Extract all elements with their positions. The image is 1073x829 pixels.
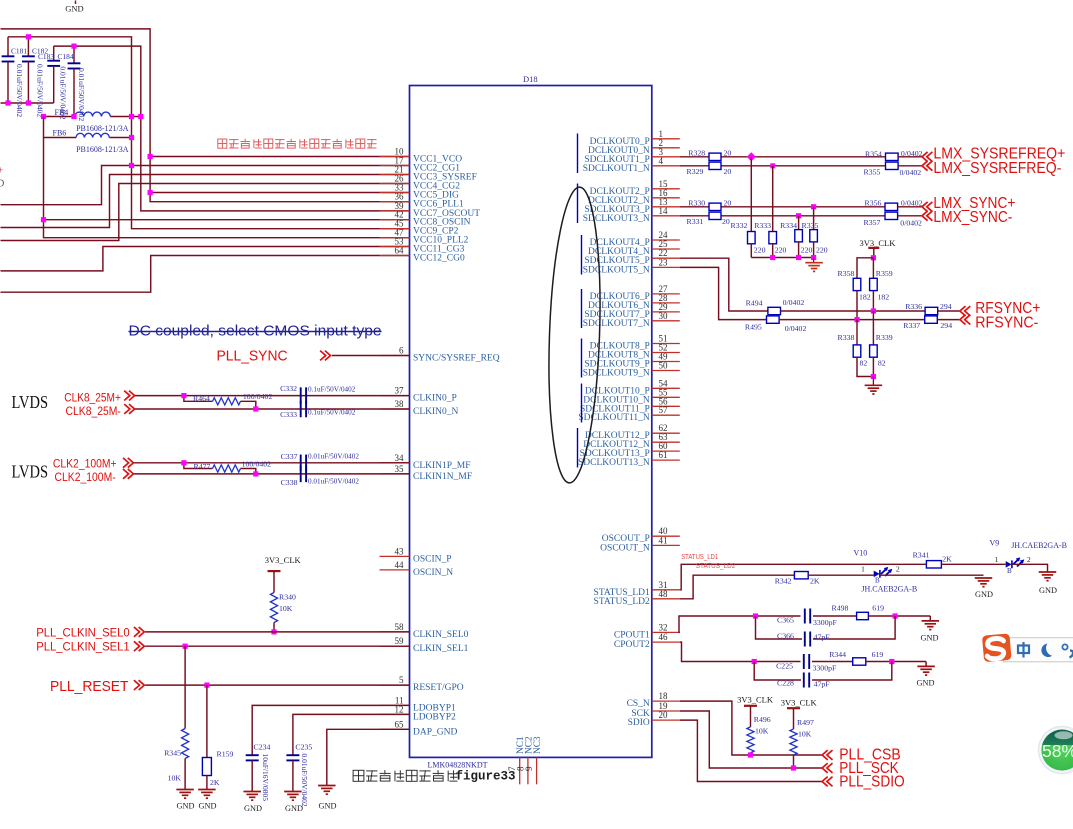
wire PLL_CLKIN_SEL0 to pin58 bbox=[145, 631, 409, 633]
port PLL_SDIO chevron bbox=[822, 777, 828, 787]
resistor R338 82 bbox=[838, 320, 874, 377]
junction dot FB6 row bbox=[129, 135, 134, 140]
svg-text:STATUS_LD2: STATUS_LD2 bbox=[696, 561, 736, 570]
pin 59 CLKIN_SEL1 (left) bbox=[380, 636, 469, 654]
port LMX_SYNC+ chevron bbox=[922, 202, 928, 212]
junction dots 220 rail bbox=[770, 255, 775, 260]
pin 11 LDOBYP1 (left) bbox=[380, 695, 457, 713]
wire STATUS_LD2 net bbox=[680, 575, 795, 599]
resistor R344 619 bbox=[829, 650, 883, 665]
power 3V3_CLK for R496 bbox=[737, 695, 774, 727]
pin 42 VCC8_OSCIN (left) bbox=[380, 210, 471, 228]
junction dot CPOUT2 node A bbox=[752, 659, 757, 664]
pin 15 DCLKOUT2_P (right) bbox=[590, 179, 680, 197]
svg-text:R359: R359 bbox=[876, 269, 893, 278]
pin 3 SDCLKOUT1_P (right) bbox=[584, 147, 679, 165]
port CLK8_25M+ chevron bbox=[124, 391, 130, 401]
resistor R494 0/0402 bbox=[746, 298, 805, 315]
resistor R358 182 bbox=[838, 258, 874, 320]
svg-text:50: 50 bbox=[659, 361, 669, 371]
port PLL_CLKIN_SEL0 chevron bbox=[134, 627, 140, 637]
power-ground symbol GND (top, partially cut) bbox=[65, 1, 83, 14]
pin 23 SDCLKOUT5_N (right) bbox=[583, 257, 680, 275]
resistor R354 0/0402 bbox=[865, 149, 923, 160]
junction dot v43/pin42 bbox=[41, 217, 46, 222]
svg-text:SDCLKOUT1_N: SDCLKOUT1_N bbox=[583, 164, 650, 174]
pin 4 SDCLKOUT1_N (right) bbox=[583, 156, 680, 174]
wire C365 to R498 bbox=[813, 615, 857, 617]
green percentage ball 58% bbox=[1038, 726, 1073, 774]
ground C234 bbox=[243, 792, 262, 814]
svg-text:C333: C333 bbox=[280, 410, 297, 419]
LED V10 JH.CAEB2GA-B bbox=[854, 549, 918, 594]
svg-text:OSCIN_P: OSCIN_P bbox=[413, 554, 452, 564]
svg-text:LVDS: LVDS bbox=[12, 392, 49, 412]
wire CLK8_25M- row bbox=[135, 408, 410, 410]
junction dot CPOUT2 node B bbox=[889, 659, 894, 664]
svg-text:4: 4 bbox=[659, 156, 664, 166]
svg-text:OSCIN_N: OSCIN_N bbox=[413, 568, 453, 578]
svg-text:619: 619 bbox=[872, 650, 884, 659]
port CLK8_25M- chevron bbox=[124, 404, 130, 414]
junction dot 3V3 split bbox=[871, 255, 876, 260]
junction dot R477 bottom bbox=[253, 471, 258, 476]
svg-text:0.01uF/50V/0402: 0.01uF/50V/0402 bbox=[308, 477, 359, 485]
svg-text:RESET/GPO: RESET/GPO bbox=[413, 683, 464, 693]
svg-text:47pF: 47pF bbox=[814, 679, 831, 688]
port PLL_SYNC chevron bbox=[320, 351, 326, 361]
svg-text:48: 48 bbox=[659, 589, 669, 599]
pin 18 CS_N (right) bbox=[627, 691, 680, 709]
svg-text:C225: C225 bbox=[776, 662, 793, 671]
resistor R159 2K bbox=[202, 685, 233, 789]
wire pin26 from left edge bbox=[1, 184, 410, 241]
svg-text:CLKIN1P_MF: CLKIN1P_MF bbox=[413, 461, 471, 471]
svg-text:9: 9 bbox=[524, 766, 534, 771]
svg-text:3V3_CLK: 3V3_CLK bbox=[781, 697, 818, 707]
svg-text:R338: R338 bbox=[838, 333, 855, 342]
junction dot v131/pin17 bbox=[129, 163, 134, 168]
svg-text:R337: R337 bbox=[903, 321, 920, 330]
wire CLK2_100M+ row bbox=[134, 462, 410, 464]
svg-text:GND: GND bbox=[177, 802, 195, 811]
pin 65 DAP_GND (left) bbox=[380, 719, 458, 737]
svg-text:20: 20 bbox=[724, 167, 732, 176]
wire pin4 row to R355 bbox=[680, 165, 886, 167]
svg-text:JH.CAEB2GA-B: JH.CAEB2GA-B bbox=[1011, 541, 1067, 550]
svg-text:SDCLKOUT13_N: SDCLKOUT13_N bbox=[578, 458, 650, 468]
svg-text:C184: C184 bbox=[58, 52, 74, 61]
pin 9 NC3 (bottom) bbox=[524, 736, 543, 784]
svg-text:DAP_GND: DAP_GND bbox=[413, 727, 457, 737]
wire top rail y=28 to pin36 vertical bbox=[1, 29, 410, 202]
svg-text:0.01uF/50V/0402: 0.01uF/50V/0402 bbox=[300, 754, 309, 807]
wire R337 to port bbox=[937, 319, 960, 321]
svg-text:3300pF: 3300pF bbox=[813, 618, 837, 627]
resistor R355 0/0402 bbox=[864, 162, 922, 177]
svg-text:2: 2 bbox=[1027, 555, 1031, 564]
svg-text:GND: GND bbox=[1039, 586, 1057, 595]
capacitor C182 bbox=[22, 37, 48, 118]
pin 33 VCC5_DIG (left) bbox=[380, 183, 460, 201]
group bracket DCLKOUT0 group bbox=[577, 134, 579, 174]
pin 38 CLKIN0_N (left) bbox=[380, 399, 459, 417]
svg-text:C183: C183 bbox=[38, 52, 54, 61]
svg-text:1: 1 bbox=[995, 555, 999, 564]
svg-text:38: 38 bbox=[395, 399, 405, 409]
svg-text:R336: R336 bbox=[905, 302, 922, 311]
svg-text:82: 82 bbox=[860, 358, 868, 367]
resistor R337 294 bbox=[903, 316, 952, 330]
svg-text:R355: R355 bbox=[864, 168, 881, 177]
wire R356 to port bbox=[898, 206, 922, 208]
svg-text:CLK2_100M+: CLK2_100M+ bbox=[53, 458, 117, 470]
svg-text:R329: R329 bbox=[687, 167, 704, 176]
svg-text:CLKIN_SEL0: CLKIN_SEL0 bbox=[413, 630, 469, 640]
svg-text:PLL_CLKIN_SEL0: PLL_CLKIN_SEL0 bbox=[36, 627, 130, 639]
pin 63 DCLKOUT12_N (right) bbox=[583, 432, 680, 450]
wire pin21 from left edge bbox=[1, 175, 410, 228]
svg-text:R494: R494 bbox=[746, 299, 763, 308]
node junction v149/pin10 bbox=[148, 154, 153, 159]
pin 19 SCK (right) bbox=[631, 701, 679, 719]
svg-text:GND: GND bbox=[285, 804, 303, 813]
svg-text:PB1608-121/3A: PB1608-121/3A bbox=[76, 124, 129, 133]
svg-text:18: 18 bbox=[659, 691, 669, 701]
pin 21 VCC3_SYSREF (left) bbox=[380, 165, 477, 183]
pin 50 SDCLKOUT9_N (right) bbox=[583, 361, 680, 379]
wire R498 to gnd node bbox=[868, 615, 930, 617]
port CLK2_100M+ chevron bbox=[123, 458, 129, 468]
capacitor C225 3300pF bbox=[776, 654, 837, 673]
port LMX_SYSREFREQ+ chevron bbox=[922, 152, 928, 162]
wire 220 ground rail bbox=[751, 257, 813, 259]
svg-text:10K: 10K bbox=[279, 604, 293, 613]
wire V10 to ground bbox=[880, 574, 984, 576]
pin 52 DCLKOUT8_N (right) bbox=[588, 343, 680, 361]
svg-text:182: 182 bbox=[859, 293, 871, 302]
resistor R341 2K bbox=[913, 551, 952, 569]
resistor R357 0/0402 bbox=[864, 212, 923, 227]
wire pin53 from left edge bbox=[1, 247, 410, 271]
group bracket DCLKOUT4 group bbox=[581, 235, 583, 275]
svg-text:VCC12_CG0: VCC12_CG0 bbox=[413, 254, 465, 264]
pin 8 NC2 (bottom) bbox=[516, 736, 535, 784]
pin 43 OSCIN_P (left) bbox=[380, 546, 452, 564]
svg-text:35: 35 bbox=[395, 464, 405, 474]
svg-text:C337: C337 bbox=[281, 452, 298, 461]
svg-text:20: 20 bbox=[724, 199, 732, 208]
junction dot R497/PLL_SCK bbox=[791, 765, 796, 770]
svg-text:C235: C235 bbox=[295, 742, 312, 751]
branch C228 47pF bbox=[754, 662, 892, 689]
junction dot SEL1/R345 bbox=[183, 644, 188, 649]
svg-text:R334: R334 bbox=[780, 221, 797, 230]
wire PLL_SYNC to pin6 bbox=[332, 355, 410, 357]
junction dot R464 bottom bbox=[253, 406, 258, 411]
svg-text:3300pF: 3300pF bbox=[813, 664, 837, 673]
power 3V3_CLK for R358 R359 bbox=[860, 238, 897, 258]
IC U D18 LMK04828NKDT body bbox=[410, 86, 652, 758]
svg-text:CPOUT2: CPOUT2 bbox=[614, 640, 650, 650]
svg-text:20: 20 bbox=[722, 217, 730, 226]
pin 44 OSCIN_N (left) bbox=[380, 560, 454, 578]
wire pin64 from left edge bbox=[1, 256, 410, 293]
group bracket DCLKOUT12 group bbox=[577, 428, 579, 468]
pin 62 DCLKOUT12_P (right) bbox=[585, 423, 680, 441]
svg-text:220: 220 bbox=[754, 245, 766, 254]
junction dot R358/RFSYNC- bbox=[854, 317, 859, 322]
pin 2 DCLKOUT0_N (right) bbox=[588, 138, 680, 156]
svg-text:0.1uF/50V/0402: 0.1uF/50V/0402 bbox=[308, 385, 356, 393]
svg-text:LMK04828NKDT: LMK04828NKDT bbox=[428, 761, 488, 770]
svg-text:2K: 2K bbox=[810, 577, 820, 586]
ground V10 bbox=[975, 578, 993, 599]
ferrite bead FB4 bbox=[55, 108, 129, 133]
capacitor C337 bbox=[281, 452, 360, 471]
svg-text:6: 6 bbox=[399, 346, 404, 356]
port PLL_RESET chevron bbox=[134, 680, 140, 690]
svg-text:R354: R354 bbox=[865, 150, 882, 159]
svg-text:R356: R356 bbox=[865, 199, 882, 208]
svg-text:C366: C366 bbox=[777, 631, 794, 640]
pin 60 SDCLKOUT13_P (right) bbox=[580, 441, 680, 459]
pin 58 CLKIN_SEL0 (left) bbox=[380, 622, 469, 640]
svg-text:CLKIN_SEL1: CLKIN_SEL1 bbox=[413, 644, 469, 654]
annotation chinese red: place a capacitor near each power pin bbox=[218, 139, 227, 148]
wire bottom cap rail y=102.5 bbox=[1, 102, 54, 104]
svg-text:100/0402: 100/0402 bbox=[242, 460, 272, 469]
junction dot CPOUT1 node A bbox=[753, 613, 758, 618]
svg-text:R339: R339 bbox=[876, 333, 893, 342]
pin 61 SDCLKOUT13_N (right) bbox=[578, 450, 680, 468]
svg-text:3V3_CLK: 3V3_CLK bbox=[860, 238, 897, 248]
ground CPOUT2 filter bbox=[917, 662, 935, 688]
svg-text:CS_N: CS_N bbox=[627, 699, 650, 709]
resistor R333 220 bbox=[754, 166, 786, 258]
svg-text:SDCLKOUT7_N: SDCLKOUT7_N bbox=[583, 319, 650, 329]
svg-text:+: + bbox=[0, 166, 4, 177]
svg-text:CLKIN0_N: CLKIN0_N bbox=[413, 407, 459, 417]
svg-text:LDOBYP2: LDOBYP2 bbox=[413, 712, 456, 722]
pin 31 STATUS_LD1 (right) bbox=[594, 580, 680, 598]
wire R344 to gnd node bbox=[866, 661, 926, 663]
capacitor C333 bbox=[280, 401, 356, 419]
junction dot R464 top bbox=[181, 393, 186, 398]
svg-text:figure33: figure33 bbox=[456, 770, 516, 784]
svg-text:FB6: FB6 bbox=[53, 129, 67, 138]
pin 46 CPOUT2 (right) bbox=[614, 632, 680, 650]
svg-text:65: 65 bbox=[395, 719, 405, 729]
svg-text:V10: V10 bbox=[854, 549, 868, 558]
svg-text:3V3_CLK: 3V3_CLK bbox=[265, 555, 302, 565]
svg-text:20: 20 bbox=[659, 710, 669, 720]
junction dot RESET/R159 bbox=[204, 683, 209, 688]
wire V9 to ground bbox=[1012, 564, 1048, 572]
wire R354 to port bbox=[898, 156, 922, 158]
svg-text:61: 61 bbox=[659, 450, 668, 460]
svg-text:GND: GND bbox=[65, 4, 83, 14]
resistor R334 220 bbox=[780, 216, 812, 258]
svg-text:46: 46 bbox=[659, 632, 669, 642]
capacitor C184 bbox=[58, 46, 87, 121]
ferrite bead FB4 row bbox=[44, 116, 75, 118]
resistor R497 10K pullup bbox=[790, 718, 814, 768]
svg-text:GND: GND bbox=[319, 802, 337, 811]
wire pin42 branch bbox=[44, 219, 410, 221]
resistor R477 100 ohm termination bbox=[184, 460, 271, 474]
svg-text:D18: D18 bbox=[523, 74, 538, 84]
svg-text:10uF/16V/0805: 10uF/16V/0805 bbox=[261, 754, 270, 802]
resistor R340 10K pullup bbox=[270, 593, 296, 632]
svg-text:294: 294 bbox=[940, 302, 952, 311]
svg-text:R345: R345 bbox=[164, 749, 181, 758]
svg-text:STATUS_LD1: STATUS_LD1 bbox=[681, 552, 718, 561]
pin 41 OSCOUT_N (right) bbox=[600, 535, 680, 553]
wire R495 to R337 bbox=[779, 319, 925, 321]
pin 16 DCLKOUT2_N (right) bbox=[588, 188, 680, 206]
port RFSYNC- chevron bbox=[960, 315, 966, 325]
resistor R329 20 bbox=[687, 162, 732, 176]
svg-text:LMX_SYNC-: LMX_SYNC- bbox=[933, 209, 1012, 226]
svg-text:R496: R496 bbox=[754, 715, 771, 724]
wire SCK to PLL_SCK bbox=[680, 711, 822, 768]
resistor R330 20 bbox=[688, 199, 731, 211]
capacitor C235 bbox=[286, 742, 312, 806]
power 3V3_CLK for R340 bbox=[265, 555, 302, 593]
pin 17 VCC2_CG1 (left) bbox=[380, 156, 461, 174]
svg-text:C332: C332 bbox=[280, 384, 297, 393]
svg-text:GND: GND bbox=[975, 590, 993, 599]
resistor R345 10K bbox=[164, 646, 189, 789]
resistor R335 220 bbox=[802, 207, 828, 258]
junction dot R332 tap bbox=[747, 152, 756, 161]
wire C225 to R344 bbox=[812, 661, 853, 663]
svg-text:R477: R477 bbox=[194, 462, 211, 471]
svg-text:182: 182 bbox=[878, 293, 890, 302]
capacitor C181 bbox=[2, 37, 28, 118]
wire third rail y=45.6 down x=140.3 to pin39 bbox=[54, 46, 410, 211]
capacitor C365 3300pF bbox=[777, 609, 837, 628]
ground C235 bbox=[284, 792, 303, 814]
resistor R359 182 bbox=[870, 258, 893, 311]
svg-text:57: 57 bbox=[659, 405, 669, 415]
pin 51 DCLKOUT8_P (right) bbox=[590, 334, 680, 352]
junction dot R333 tap bbox=[770, 163, 775, 168]
svg-text:0.01uF/50V/0402: 0.01uF/50V/0402 bbox=[308, 452, 359, 460]
svg-text:STATUS_LD2: STATUS_LD2 bbox=[594, 597, 650, 607]
wire CS_N to PLL_CSB bbox=[680, 701, 822, 755]
pin 47 VCC10_PLL2 (left) bbox=[380, 228, 469, 246]
pin 54 DCLKOUT10_P (right) bbox=[585, 378, 680, 396]
resistor R356 0/0402 bbox=[865, 199, 923, 211]
svg-text:R357: R357 bbox=[864, 218, 881, 227]
ground R345 bbox=[176, 790, 194, 811]
wire LDOBYP1 to C234 bbox=[252, 705, 409, 755]
svg-text:CLKIN1N_MF: CLKIN1N_MF bbox=[413, 472, 472, 482]
pin 5 RESET/GPO (left) bbox=[380, 675, 464, 693]
svg-text:RFSYNC-: RFSYNC- bbox=[975, 314, 1038, 331]
group bracket DCLKOUT2 group bbox=[577, 184, 579, 224]
wire pin33 branch bbox=[150, 192, 409, 194]
svg-text:5: 5 bbox=[399, 675, 404, 685]
pin 30 SDCLKOUT7_N (right) bbox=[583, 311, 680, 329]
pin 57 SDCLKOUT11_N (right) bbox=[578, 405, 679, 423]
svg-text:R358: R358 bbox=[838, 269, 855, 278]
port LMX_SYNC- chevron bbox=[922, 211, 928, 221]
svg-text:GND: GND bbox=[199, 802, 217, 811]
junction dots cap rails bbox=[26, 34, 31, 39]
svg-text:100/0402: 100/0402 bbox=[243, 392, 273, 401]
wire R494 to R336 bbox=[781, 310, 926, 312]
wire STATUS_LD1 net bbox=[680, 564, 927, 590]
svg-text:CLK8_25M-: CLK8_25M- bbox=[66, 406, 122, 418]
pin 28 DCLKOUT6_N (right) bbox=[588, 293, 680, 311]
wire v43 from FB4 row to pin47 bbox=[44, 117, 410, 238]
wire pin17 from left edge bbox=[1, 166, 410, 205]
text fragment at left edge bbox=[0, 166, 5, 190]
svg-text:CLKIN0_P: CLKIN0_P bbox=[413, 394, 457, 404]
wire CPOUT1 to filter bbox=[679, 616, 801, 632]
svg-text:B: B bbox=[1007, 567, 1012, 575]
svg-text:LMX_SYSREFREQ-: LMX_SYSREFREQ- bbox=[933, 160, 1061, 177]
pin 36 VCC6_PLL1 (left) bbox=[380, 192, 464, 210]
svg-text:10K: 10K bbox=[755, 727, 769, 736]
junction dot R338/R339 gnd bbox=[871, 374, 876, 379]
svg-text:DC coupled, select CMOS input: DC coupled, select CMOS input type bbox=[129, 324, 382, 340]
resistor R331 20 bbox=[687, 212, 730, 226]
junction dot R359/RFSYNC+ bbox=[871, 308, 876, 313]
pin 35 CLKIN1N_MF (left) bbox=[380, 464, 473, 482]
svg-text:GND: GND bbox=[244, 804, 262, 813]
ground 220 rail bbox=[805, 258, 823, 272]
junction dot R335 tap bbox=[811, 204, 816, 209]
resistor R336 294 bbox=[905, 302, 952, 315]
svg-text:OSCOUT_N: OSCOUT_N bbox=[600, 543, 650, 553]
wire CLK8_25M+ row bbox=[135, 395, 410, 397]
svg-text:R330: R330 bbox=[688, 199, 705, 208]
svg-text:30: 30 bbox=[659, 311, 669, 321]
wire R341 to V9 bbox=[941, 563, 1005, 565]
svg-text:47pF: 47pF bbox=[814, 632, 831, 641]
svg-text:LVDS: LVDS bbox=[12, 462, 49, 482]
resistor R496 10K pullup bbox=[747, 715, 771, 755]
svg-text:1: 1 bbox=[861, 565, 865, 574]
pin 45 VCC9_CP2 (left) bbox=[380, 219, 459, 237]
svg-text:58: 58 bbox=[395, 622, 405, 632]
LED V9 JH.CAEB2GA-B bbox=[990, 539, 1067, 576]
svg-text:41: 41 bbox=[659, 535, 668, 545]
wire R355 to port bbox=[898, 165, 922, 167]
ground DAP_GND bbox=[318, 786, 336, 811]
wire PLL_CLKIN_SEL1 to pin59 bbox=[145, 645, 409, 647]
pin 20 SDIO (right) bbox=[628, 710, 680, 728]
junction dot R496/PLL_CSB bbox=[748, 752, 753, 757]
svg-text:V9: V9 bbox=[990, 539, 1000, 548]
resistor R498 619 bbox=[832, 604, 885, 620]
svg-text:GND: GND bbox=[921, 634, 939, 643]
svg-text:10K: 10K bbox=[798, 730, 812, 739]
svg-text:SDCLKOUT5_N: SDCLKOUT5_N bbox=[583, 265, 650, 275]
svg-text:R498: R498 bbox=[832, 604, 849, 613]
svg-text:10K: 10K bbox=[168, 773, 182, 782]
svg-text:C181: C181 bbox=[11, 47, 27, 56]
svg-text:R333: R333 bbox=[754, 221, 771, 230]
svg-text:2: 2 bbox=[896, 565, 900, 574]
wire LDOBYP2 to C235 bbox=[293, 714, 410, 755]
wire R342 to V10 bbox=[808, 574, 874, 576]
annotation ellipse over output pins bbox=[544, 186, 604, 484]
